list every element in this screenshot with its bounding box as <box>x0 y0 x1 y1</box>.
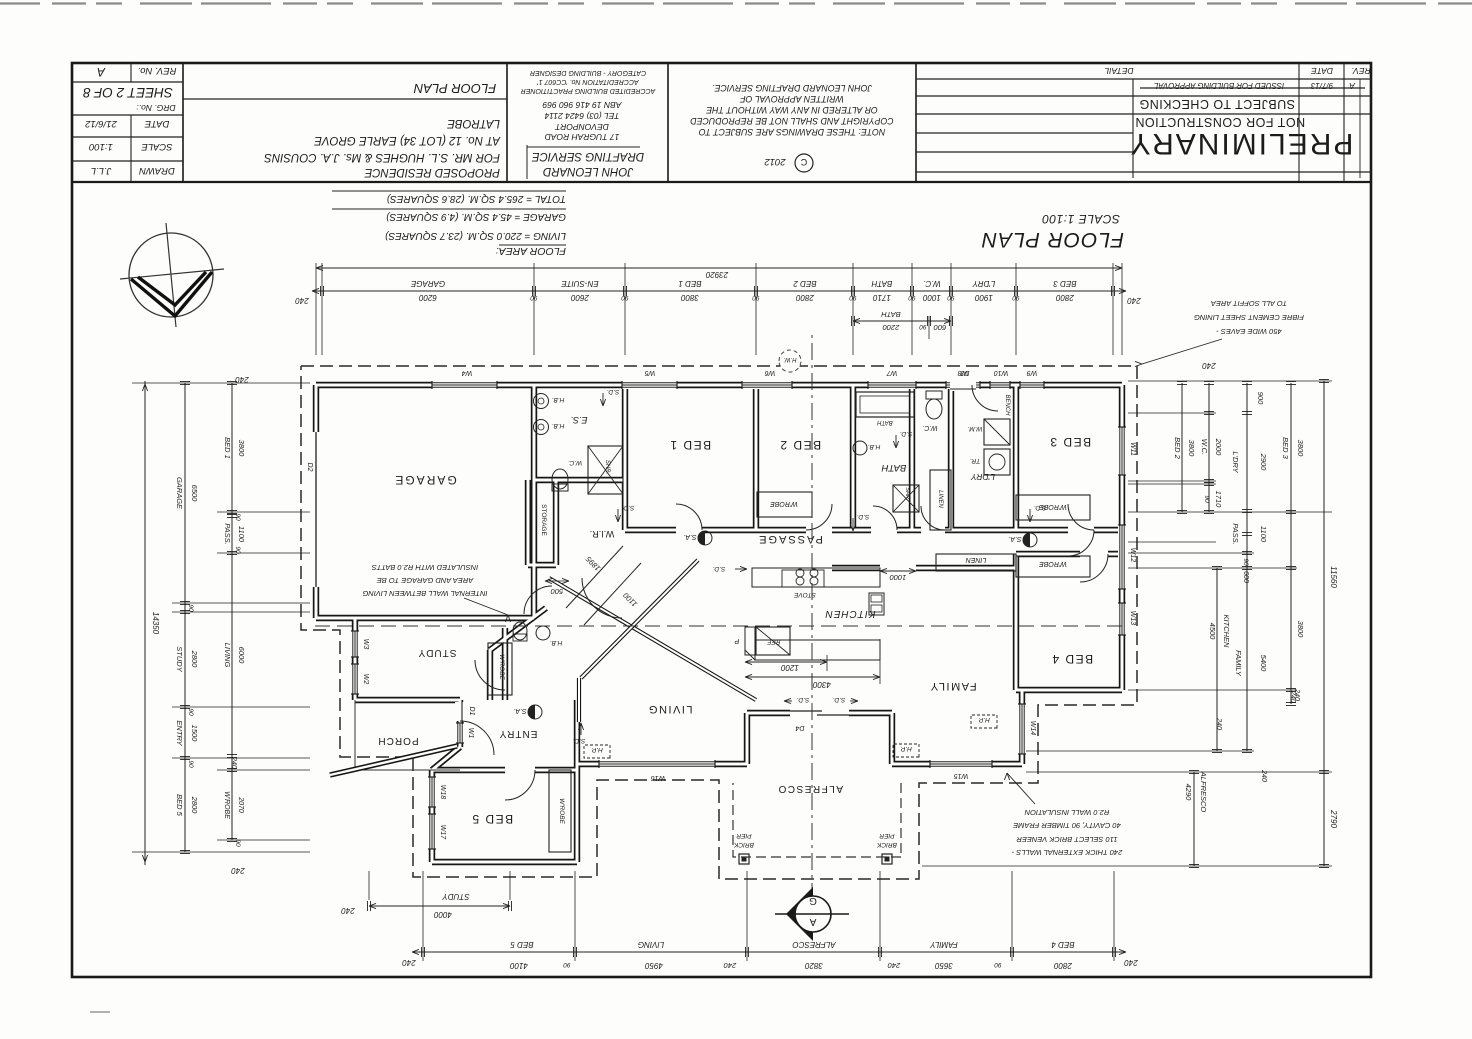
svg-text:90: 90 <box>234 513 241 521</box>
svg-text:1100: 1100 <box>237 526 246 543</box>
svg-text:3800: 3800 <box>1187 440 1196 458</box>
svg-text:5400: 5400 <box>1259 655 1268 673</box>
svg-text:STUDY: STUDY <box>442 892 470 901</box>
svg-text:1100: 1100 <box>1259 526 1268 543</box>
svg-text:W.M.: W.M. <box>967 425 982 432</box>
svg-text:40 CAVITY, 90 TIMBER FRAME: 40 CAVITY, 90 TIMBER FRAME <box>1012 821 1121 830</box>
svg-text:LINEN: LINEN <box>965 556 987 563</box>
svg-text:ALFRESCO: ALFRESCO <box>1199 771 1208 813</box>
svg-text:LINEN: LINEN <box>937 490 943 508</box>
svg-text:TOTAL = 265.4 SQ.M. (28.6 SQ: TOTAL = 265.4 SQ.M. (28.6 SQUARES) <box>387 193 566 204</box>
svg-text:W17: W17 <box>439 825 446 841</box>
svg-text:TO ALL SOFFIT AREA: TO ALL SOFFIT AREA <box>1211 299 1287 308</box>
svg-text:3800: 3800 <box>1296 440 1305 458</box>
svg-text:INSULATED WITH R2.0 BATTS: INSULATED WITH R2.0 BATTS <box>372 563 478 572</box>
svg-text:240: 240 <box>231 866 246 875</box>
svg-text:2800: 2800 <box>796 293 815 302</box>
svg-text:H.P.: H.P. <box>900 745 912 752</box>
svg-text:3800: 3800 <box>237 440 246 458</box>
svg-text:2600: 2600 <box>571 293 590 302</box>
svg-text:STUDY: STUDY <box>175 646 184 672</box>
svg-text:SHR.: SHR. <box>904 487 910 500</box>
svg-text:ACCREDITED BUILDING PRACTITION: ACCREDITED BUILDING PRACTITIONER <box>521 87 657 94</box>
svg-text:JOHN LEONARD DRAFTING SERVICE.: JOHN LEONARD DRAFTING SERVICE. <box>712 83 873 93</box>
svg-text:W'ROBE: W'ROBE <box>223 791 230 819</box>
svg-text:90: 90 <box>1203 495 1210 503</box>
svg-text:240: 240 <box>1124 958 1139 967</box>
svg-text:DRAWN: DRAWN <box>139 165 175 176</box>
svg-text:BED 3: BED 3 <box>1281 437 1290 460</box>
svg-text:S.A.: S.A. <box>683 533 696 540</box>
svg-text:240: 240 <box>402 958 417 967</box>
svg-text:A: A <box>1349 81 1356 91</box>
svg-text:2800: 2800 <box>190 650 199 669</box>
svg-text:1900: 1900 <box>975 293 993 302</box>
svg-text:ALFRESCO: ALFRESCO <box>777 783 843 794</box>
svg-text:90: 90 <box>919 323 927 330</box>
svg-text:21/6/12: 21/6/12 <box>84 118 117 129</box>
svg-text:90: 90 <box>563 961 571 968</box>
svg-text:W'ROBE: W'ROBE <box>1039 560 1067 567</box>
svg-text:D2: D2 <box>306 463 313 472</box>
svg-text:W18: W18 <box>439 785 446 800</box>
svg-text:90: 90 <box>908 294 916 301</box>
svg-text:W'ROBE: W'ROBE <box>498 654 505 680</box>
svg-text:1:100: 1:100 <box>88 141 112 152</box>
svg-text:240: 240 <box>295 296 310 305</box>
svg-text:REF: REF <box>766 638 780 645</box>
svg-text:SHR.: SHR. <box>604 460 610 474</box>
svg-text:BRICK: BRICK <box>733 841 754 848</box>
svg-text:KITCHEN: KITCHEN <box>825 608 876 619</box>
svg-text:FLOOR PLAN: FLOOR PLAN <box>413 81 496 96</box>
svg-text:240: 240 <box>230 756 237 769</box>
svg-text:90: 90 <box>187 604 194 612</box>
svg-text:BED 5: BED 5 <box>471 812 513 826</box>
svg-text:600: 600 <box>1242 571 1249 583</box>
svg-text:240: 240 <box>341 906 356 915</box>
svg-text:FLOOR AREA:: FLOOR AREA: <box>496 245 566 257</box>
svg-text:W7: W7 <box>886 369 898 376</box>
svg-text:FIBRE CEMENT SHEET LINING: FIBRE CEMENT SHEET LINING <box>1194 313 1304 322</box>
svg-text:W14: W14 <box>1029 721 1036 736</box>
svg-text:4290: 4290 <box>1184 784 1193 802</box>
svg-text:NOTE: THESE DRAWINGS ARE SUBJE: NOTE: THESE DRAWINGS ARE SUBJECT TO <box>699 127 886 137</box>
svg-text:110 SELECT BRICK VENEER: 110 SELECT BRICK VENEER <box>1016 835 1118 844</box>
svg-text:PASSAGE: PASSAGE <box>757 533 823 545</box>
svg-text:PIER: PIER <box>879 832 894 839</box>
svg-text:L'DRY: L'DRY <box>1231 451 1240 473</box>
svg-text:500: 500 <box>550 587 563 596</box>
svg-text:2200: 2200 <box>882 323 901 332</box>
svg-text:BATH: BATH <box>881 310 901 319</box>
svg-text:D1: D1 <box>468 707 475 716</box>
svg-text:BED 3: BED 3 <box>1049 435 1091 449</box>
svg-text:S.A.: S.A. <box>513 707 526 714</box>
svg-text:PIER: PIER <box>736 832 751 839</box>
svg-text:S.D.: S.D. <box>796 696 809 703</box>
svg-text:DATE: DATE <box>144 118 169 129</box>
svg-text:BED 5: BED 5 <box>510 940 534 949</box>
svg-text:900: 900 <box>1256 392 1265 405</box>
svg-text:1000: 1000 <box>923 293 941 302</box>
svg-text:W2: W2 <box>362 674 369 685</box>
svg-text:450 WIDE EAVES -: 450 WIDE EAVES - <box>1216 327 1282 336</box>
svg-text:4950: 4950 <box>645 961 663 970</box>
svg-text:240: 240 <box>1127 296 1142 305</box>
svg-text:11560: 11560 <box>1329 566 1338 588</box>
svg-text:W16: W16 <box>651 774 666 781</box>
svg-text:DRAFTING SERVICE: DRAFTING SERVICE <box>532 150 645 162</box>
svg-text:TEL (03) 6424 2114: TEL (03) 6424 2114 <box>544 111 619 121</box>
svg-text:W10: W10 <box>994 369 1009 376</box>
svg-text:6500: 6500 <box>190 485 199 503</box>
svg-text:4300: 4300 <box>813 680 831 689</box>
svg-text:A: A <box>97 65 106 79</box>
svg-text:14350: 14350 <box>151 612 160 635</box>
svg-text:240: 240 <box>723 961 737 970</box>
svg-text:90: 90 <box>187 760 194 768</box>
svg-text:D3: D3 <box>960 369 969 376</box>
svg-text:STORAGE: STORAGE <box>540 504 547 536</box>
svg-text:PORCH: PORCH <box>377 735 418 746</box>
svg-text:PASS.: PASS. <box>223 523 232 545</box>
svg-text:L'DRY: L'DRY <box>972 279 995 288</box>
svg-text:2900: 2900 <box>1259 453 1268 472</box>
svg-text:BED 2: BED 2 <box>779 438 821 452</box>
svg-text:EN-SUITE: EN-SUITE <box>561 279 599 288</box>
svg-text:90: 90 <box>234 546 241 554</box>
svg-text:W15: W15 <box>954 772 969 779</box>
svg-text:90: 90 <box>530 294 538 301</box>
svg-text:W3: W3 <box>362 639 369 650</box>
svg-text:23920: 23920 <box>705 270 729 279</box>
svg-text:KITCHEN: KITCHEN <box>1222 615 1231 649</box>
svg-text:W1: W1 <box>467 728 474 739</box>
svg-text:ALFRESCO: ALFRESCO <box>792 940 836 949</box>
svg-text:3820: 3820 <box>805 961 823 970</box>
svg-text:H.W.: H.W. <box>783 356 796 362</box>
svg-text:90: 90 <box>994 961 1002 968</box>
svg-text:LIVING: LIVING <box>638 940 664 949</box>
svg-text:W5: W5 <box>645 369 656 376</box>
svg-text:90: 90 <box>849 294 857 301</box>
svg-text:S.D.: S.D. <box>712 565 725 572</box>
svg-text:1710: 1710 <box>1214 491 1223 509</box>
svg-text:2800: 2800 <box>1056 293 1075 302</box>
svg-text:FOR MR. S.L. HUGHES & Ms. J.A.: FOR MR. S.L. HUGHES & Ms. J.A. COUSINS <box>264 151 500 163</box>
svg-text:INTERNAL WALL BETWEEN LIVING: INTERNAL WALL BETWEEN LIVING <box>362 589 487 598</box>
svg-text:BATH: BATH <box>877 419 893 425</box>
svg-text:E.S.: E.S. <box>570 415 587 425</box>
svg-text:6200: 6200 <box>419 293 437 302</box>
svg-text:STUDY: STUDY <box>418 647 457 658</box>
svg-text:1200: 1200 <box>781 663 799 672</box>
svg-text:BED 3: BED 3 <box>1053 279 1077 288</box>
svg-text:LATROBE: LATROBE <box>447 117 500 129</box>
svg-text:1000: 1000 <box>889 573 907 582</box>
svg-text:ENTRY: ENTRY <box>175 720 184 746</box>
svg-text:P: P <box>734 637 739 644</box>
svg-text:4100: 4100 <box>510 961 528 970</box>
svg-text:W'ROBE: W'ROBE <box>770 500 798 507</box>
svg-text:AREA AND GARAGE TO BE: AREA AND GARAGE TO BE <box>376 576 474 585</box>
svg-text:W.C.: W.C. <box>923 279 940 288</box>
svg-text:LIVING = 220.0 SQ.M. (23.7 S: LIVING = 220.0 SQ.M. (23.7 SQUARES) <box>385 230 566 241</box>
svg-text:OR ALTERED IN ANY WAY WITHOUT: OR ALTERED IN ANY WAY WITHOUT THE <box>706 105 878 115</box>
svg-text:S.D.: S.D. <box>572 737 585 744</box>
svg-text:PASS.: PASS. <box>1231 523 1240 545</box>
svg-text:S.D.: S.D. <box>606 388 619 395</box>
svg-text:DEVONPORT: DEVONPORT <box>554 122 608 132</box>
svg-text:W.I.R.: W.I.R. <box>590 529 615 539</box>
svg-text:FAMILY: FAMILY <box>1234 650 1243 677</box>
svg-text:COPYRIGHT AND SHALL NOT BE REP: COPYRIGHT AND SHALL NOT BE REPRODUCED <box>690 116 894 126</box>
svg-text:H.P.: H.P. <box>591 746 603 753</box>
svg-text:240: 240 <box>235 375 250 384</box>
svg-text:LIVING: LIVING <box>647 703 692 715</box>
svg-text:4500: 4500 <box>1208 623 1217 641</box>
svg-text:TR.: TR. <box>970 457 981 464</box>
svg-text:GARAGE: GARAGE <box>175 477 184 510</box>
svg-text:3800: 3800 <box>1296 621 1305 639</box>
svg-text:S.D.: S.D. <box>899 430 912 437</box>
svg-text:90: 90 <box>1242 558 1249 566</box>
svg-text:90: 90 <box>752 294 760 301</box>
svg-text:2012: 2012 <box>764 156 787 167</box>
svg-text:BED 1: BED 1 <box>223 437 232 459</box>
svg-text:DRG. No.:: DRG. No.: <box>136 103 176 113</box>
svg-text:NOT FOR CONSTRUCTION: NOT FOR CONSTRUCTION <box>1135 115 1305 129</box>
svg-text:H.B.: H.B. <box>551 396 564 403</box>
svg-text:S.A.: S.A. <box>1008 535 1021 542</box>
svg-text:S.D.: S.D. <box>856 513 869 520</box>
svg-text:DATE: DATE <box>1311 66 1333 76</box>
svg-text:240: 240 <box>1202 361 1217 370</box>
svg-text:90: 90 <box>187 708 194 716</box>
svg-text:240: 240 <box>1260 769 1267 782</box>
svg-text:2800: 2800 <box>1054 961 1073 970</box>
svg-text:W12: W12 <box>1129 548 1136 563</box>
svg-text:2000: 2000 <box>1214 438 1223 457</box>
svg-text:W'ROBE: W'ROBE <box>558 798 565 824</box>
svg-text:1500: 1500 <box>190 725 199 743</box>
svg-text:2790: 2790 <box>1329 809 1338 828</box>
svg-text:2800: 2800 <box>190 796 199 815</box>
svg-text:90: 90 <box>1012 294 1020 301</box>
svg-text:90: 90 <box>621 294 629 301</box>
svg-text:240: 240 <box>1293 688 1300 701</box>
svg-text:BRICK: BRICK <box>876 841 897 848</box>
svg-text:C: C <box>800 157 807 167</box>
svg-text:BED 5: BED 5 <box>175 794 184 817</box>
svg-text:BATH: BATH <box>882 462 907 473</box>
svg-text:FLOOR PLAN: FLOOR PLAN <box>981 228 1124 251</box>
svg-text:PROPOSED RESIDENCE: PROPOSED RESIDENCE <box>364 166 500 178</box>
svg-text:SUBJECT TO CHECKING: SUBJECT TO CHECKING <box>1139 97 1295 111</box>
svg-text:ABN 19 416 960 969: ABN 19 416 960 969 <box>542 100 622 110</box>
svg-text:GARAGE: GARAGE <box>410 279 445 288</box>
svg-text:R2.0 WALL INSULATION: R2.0 WALL INSULATION <box>1024 808 1109 817</box>
svg-text:W.C.: W.C. <box>568 459 582 466</box>
svg-text:WRITTEN APPROVAL OF: WRITTEN APPROVAL OF <box>740 94 844 104</box>
svg-text:H.B.: H.B. <box>549 639 562 646</box>
svg-text:6000: 6000 <box>237 647 246 665</box>
svg-text:BED 2: BED 2 <box>793 279 817 288</box>
svg-text:H.B.: H.B. <box>867 443 880 450</box>
svg-text:L'DRY: L'DRY <box>970 472 995 482</box>
svg-text:90: 90 <box>947 294 955 301</box>
svg-text:17 TUGRAH ROAD: 17 TUGRAH ROAD <box>545 132 620 142</box>
svg-text:DETAIL: DETAIL <box>1104 66 1133 76</box>
svg-text:2070: 2070 <box>237 796 244 813</box>
svg-text:FAMILY: FAMILY <box>930 940 958 949</box>
svg-text:REV.: REV. <box>1351 66 1370 76</box>
svg-text:ACCREDITATION No. 'CC607 1': ACCREDITATION No. 'CC607 1' <box>537 78 640 85</box>
svg-text:3650: 3650 <box>935 961 953 970</box>
svg-text:S.D.: S.D. <box>832 696 845 703</box>
svg-text:S.D.: S.D. <box>1033 504 1046 511</box>
svg-text:BED 4: BED 4 <box>1051 652 1093 666</box>
svg-text:240: 240 <box>1215 717 1222 730</box>
svg-text:W4: W4 <box>462 369 473 376</box>
svg-text:JOHN LEONARD: JOHN LEONARD <box>543 165 634 177</box>
svg-text:BED 1: BED 1 <box>678 279 701 288</box>
svg-text:SHEET 2 OF 8: SHEET 2 OF 8 <box>83 85 173 100</box>
svg-text:4000: 4000 <box>434 910 452 919</box>
svg-text:600: 600 <box>933 323 946 332</box>
svg-text:90: 90 <box>234 839 241 847</box>
svg-text:D4: D4 <box>795 724 804 731</box>
svg-text:W.C.: W.C. <box>1200 439 1209 455</box>
svg-text:PRELIMINARY: PRELIMINARY <box>1129 127 1354 160</box>
svg-text:FAMILY: FAMILY <box>929 680 976 692</box>
svg-text:BED 1: BED 1 <box>669 438 711 452</box>
svg-text:SCALE: SCALE <box>141 141 173 152</box>
svg-text:STOVE: STOVE <box>793 591 816 598</box>
svg-text:BENCH: BENCH <box>1004 394 1010 416</box>
svg-text:W9: W9 <box>1027 369 1038 376</box>
svg-text:W.C.: W.C. <box>922 424 937 431</box>
svg-text:BED 2: BED 2 <box>1173 437 1182 460</box>
svg-text:BATH: BATH <box>871 279 892 288</box>
svg-text:H.B.: H.B. <box>551 422 564 429</box>
svg-text:LIVING: LIVING <box>223 643 232 668</box>
svg-text:CATEGORY - BUILDING DESIGNER: CATEGORY - BUILDING DESIGNER <box>530 69 646 76</box>
svg-text:H.P.: H.P. <box>978 716 990 723</box>
svg-text:GARAGE: GARAGE <box>393 473 456 487</box>
svg-text:BED 4: BED 4 <box>1051 940 1075 949</box>
svg-text:AT No. 12 (LOT 34) EARLE GROVE: AT No. 12 (LOT 34) EARLE GROVE <box>314 134 501 146</box>
svg-text:ENTRY: ENTRY <box>499 728 538 739</box>
svg-text:S.D.: S.D. <box>621 504 634 511</box>
svg-text:W13: W13 <box>1129 611 1136 626</box>
svg-text:3800: 3800 <box>681 293 699 302</box>
svg-text:SCALE 1:100: SCALE 1:100 <box>1042 212 1120 226</box>
svg-text:W6: W6 <box>765 369 776 376</box>
svg-text:A: A <box>809 916 816 927</box>
svg-text:REV. No.: REV. No. <box>138 65 177 76</box>
svg-text:W11: W11 <box>1129 442 1136 456</box>
svg-text:G: G <box>809 895 817 906</box>
svg-text:240: 240 <box>887 961 901 970</box>
svg-text:J.L.L: J.L.L <box>91 165 113 176</box>
svg-text:GARAGE = 45.4 SQ.M. (4.9 SQU: GARAGE = 45.4 SQ.M. (4.9 SQUARES) <box>386 211 566 222</box>
svg-text:240 THICK EXTERNAL WALLS -: 240 THICK EXTERNAL WALLS - <box>1011 848 1123 857</box>
svg-text:1710: 1710 <box>873 293 891 302</box>
